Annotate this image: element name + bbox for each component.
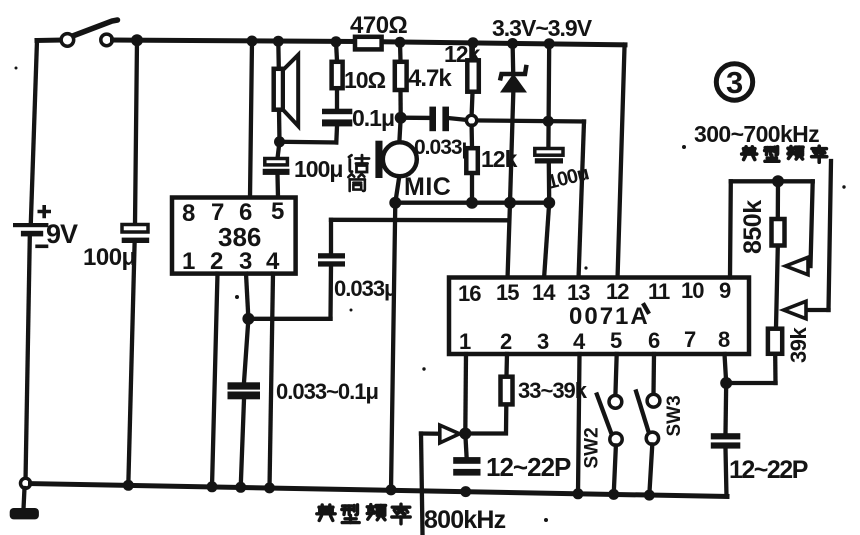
wire 850k top lead [776, 181, 781, 218]
svg-text:MIC: MIC [404, 173, 451, 201]
capacitor C 0.033u coupling top lead [329, 220, 333, 255]
svg-text:12k: 12k [444, 41, 481, 67]
speaker LS1 cone [283, 55, 298, 126]
capacitor C 100u battery hollow plate [122, 225, 148, 233]
capacitor C 0.1u plate top [322, 109, 352, 115]
svg-text:800kHz: 800kHz [424, 506, 506, 534]
node junction dot mic bottom [389, 197, 401, 209]
svg-text:39k: 39k [786, 327, 811, 363]
wire 12k lower bottom lead [470, 174, 474, 203]
svg-text:15: 15 [496, 280, 519, 305]
svg-text:4: 4 [573, 329, 586, 354]
node junction dot rail pin1 column [460, 486, 471, 497]
node junction dot pin1 node [459, 428, 471, 440]
wire top rail right segment [382, 42, 625, 45]
resistor R 12k upper body [467, 60, 479, 91]
wire battery bottom lead [26, 236, 30, 481]
svg-text:12: 12 [606, 279, 629, 304]
wire pin8 node to 39k corner [726, 381, 775, 385]
resistor R 33-39k body [501, 377, 513, 405]
svg-text:8: 8 [182, 200, 195, 227]
wire 12k upper bottom lead [469, 93, 474, 116]
wire mic bottom lead [395, 176, 399, 202]
wire pin15 column [508, 203, 511, 279]
capacitor C 100u battery solid plate [122, 238, 150, 243]
node junction dot rail pin3 column [235, 482, 246, 493]
capacitor C 12-22P right plate top [711, 433, 741, 439]
svg-text:14: 14 [532, 280, 556, 305]
node junction dot 850k top [772, 175, 784, 187]
annotation leader2 vertical [829, 161, 832, 310]
microphone MIC body circle [383, 142, 417, 176]
node junction dot row 12k [466, 197, 478, 209]
svg-text:9: 9 [719, 278, 731, 303]
wire pin8 column upper [725, 354, 727, 383]
node junction dot bottom rail 100u column [123, 480, 134, 491]
svg-text:5: 5 [610, 328, 622, 353]
wire 12-22P right bottom lead [726, 449, 727, 497]
label battery plus sign [38, 205, 52, 218]
svg-text:850k: 850k [739, 200, 767, 254]
node ground junction ring [21, 478, 31, 488]
svg-text:4.7k: 4.7k [408, 65, 452, 92]
wire 850k top row [731, 179, 813, 183]
wire mic row y203 [395, 201, 551, 205]
wire top rail middle segment [113, 40, 355, 42]
node junction dot rail pin4 column [573, 488, 584, 499]
switch SW3 bottom contact [646, 432, 658, 444]
svg-text:10Ω: 10Ω [344, 67, 386, 93]
svg-text:13: 13 [567, 280, 590, 305]
label huatong chinese char tong [348, 174, 365, 191]
page number circled 3 [716, 64, 752, 100]
wire 10ohm top lead [336, 42, 337, 61]
svg-text:16: 16 [458, 281, 481, 306]
wire zener top lead [510, 44, 515, 73]
wire 0.033u coupling bottom lead [328, 267, 333, 319]
label dianxing pinlv right [742, 146, 827, 162]
resistor R 12k lower body [466, 148, 478, 173]
node junction dot rail zener column [507, 38, 518, 49]
battery B1 long plate [13, 223, 48, 227]
wire 12k upper top lead [470, 43, 475, 60]
wire 386 pin4 to ground rail [270, 274, 274, 488]
wire pin14 column [544, 203, 549, 279]
wire SW3 bottom lead [649, 444, 652, 495]
annotation arrow 800kHz triangle [440, 425, 460, 443]
capacitor C 100u output top lead [278, 142, 280, 159]
wire pin9 column up [728, 181, 733, 277]
op-amp U1 386 body [172, 198, 296, 274]
IC U2 0071A body [449, 278, 749, 355]
switch SW3 lever [636, 392, 648, 432]
diode zener VD cathode bar with wings [500, 65, 527, 81]
wire pin1 column [463, 354, 468, 434]
wire zener bottom lead [510, 93, 513, 203]
wire 0.033-0.1u bottom lead [241, 399, 244, 487]
capacitor C 0.033u series left lead [401, 116, 431, 121]
wire annotation arrow1 drop [811, 181, 813, 266]
label 0071A tick [644, 305, 648, 312]
svg-text:3: 3 [726, 65, 743, 100]
wire battery top lead [31, 41, 37, 224]
capacitor C 100u output solid plate [263, 169, 290, 175]
node junction dot rail 12k column [468, 37, 479, 48]
wire pin5 column [615, 354, 616, 395]
wire pin4 column [578, 354, 580, 494]
node junction ring 12k-12k [466, 115, 476, 125]
svg-text:10: 10 [681, 278, 704, 303]
svg-text:11: 11 [648, 279, 670, 304]
wire 12-22P left mid leads [465, 434, 466, 458]
svg-text:5: 5 [271, 198, 284, 225]
wire 0.1u bottom lead [334, 126, 339, 142]
capacitor C 100u battery column top lead [135, 40, 137, 224]
wire speaker bottom lead [277, 110, 282, 142]
wire 4.7k bottom lead [398, 91, 403, 118]
wire pin12 column from rail corner [618, 45, 626, 279]
wire 10ohm to 0.1u [335, 89, 339, 109]
svg-text:SW2: SW2 [582, 427, 603, 468]
svg-text:8: 8 [718, 327, 730, 352]
node junction dot rail mic column [386, 484, 397, 495]
wire 100u output bottom lead to 386 pin5 [275, 175, 280, 198]
capacitor C 12-22P right plate bottom [711, 442, 741, 448]
svg-text:3.3V~3.9V: 3.3V~3.9V [492, 15, 593, 41]
svg-text:2: 2 [210, 248, 223, 275]
capacitor C 0.033u coupling plate bottom [318, 261, 345, 266]
wire mic top lead [399, 118, 400, 143]
capacitor C 0.033u series right lead [449, 118, 467, 120]
resistor R 850k body [772, 219, 785, 246]
switch S1 contact circle left [61, 34, 74, 47]
node junction dot rail 386 pin6 column [247, 36, 258, 47]
wire SW2 bottom lead [614, 445, 616, 494]
node junction dot rail 4.7k column [395, 37, 406, 48]
node junction dot speaker bottom [274, 136, 285, 147]
speaker LS1 body [274, 69, 283, 110]
svg-text:0.033~0.1μ: 0.033~0.1μ [276, 379, 378, 404]
wire pin13 column [579, 122, 585, 280]
svg-text:3: 3 [239, 248, 252, 275]
node junction dot 4.7k mic [395, 112, 407, 124]
wire 386 pin6 to rail [250, 41, 252, 198]
svg-text:0.1μ: 0.1μ [352, 105, 394, 131]
capacitor C 0.033u series plate right [442, 107, 449, 132]
switch S1 contact circle right [101, 34, 113, 46]
wire pin3 node to coupling cap [248, 317, 330, 321]
label huatong chinese char hua [349, 155, 369, 172]
wire y120 line right of node [472, 120, 584, 121]
annotation arrow 800kHz leader horizontal [421, 431, 441, 436]
wire pin3 node to 0.033-0.1u cap [244, 319, 248, 383]
svg-text:470Ω: 470Ω [350, 12, 408, 39]
node junction dot rail pin2 [207, 481, 218, 492]
svg-text:2: 2 [500, 329, 512, 354]
svg-text:3: 3 [537, 329, 549, 354]
capacitor C 100u3 hollow plate [535, 149, 563, 156]
svg-text:7: 7 [684, 327, 696, 352]
annotation arrow2 triangle [784, 301, 806, 318]
label dianxing pinlv bottom [317, 504, 410, 524]
node junction dot 386 pin3 [242, 313, 254, 325]
node junction dot rail SW3 [644, 490, 655, 501]
svg-text:100μ: 100μ [294, 156, 342, 182]
svg-text:1: 1 [459, 329, 471, 354]
node junction dot pin8 node [720, 377, 732, 389]
svg-text:6: 6 [648, 328, 660, 353]
wire pin8 to cap lead [723, 383, 728, 433]
capacitor C 100u3 solid plate [535, 158, 563, 163]
node junction dot rail battery-cap column [131, 34, 143, 46]
resistor R 10ohm body [332, 62, 343, 88]
wire 100u3 top lead [546, 44, 551, 149]
wire 39k bottom lead to pin8 node [773, 355, 778, 383]
node junction dot rail pin4 column [264, 482, 275, 493]
svg-text:0071A: 0071A [569, 303, 650, 330]
annotation leader2 horizontal [807, 308, 829, 312]
switch SW2 bottom contact [610, 433, 622, 445]
wire 386 pin3 down [246, 274, 248, 319]
capacitor C 100u battery bottom lead [128, 243, 134, 485]
label battery minus sign [35, 245, 48, 249]
wire ground stem [24, 488, 25, 509]
svg-text:4: 4 [266, 248, 280, 275]
node junction dot y120 100u3 tap [543, 116, 554, 127]
wire 33-39k bottom lead L to pin1 node [465, 405, 506, 433]
capacitor C 12-22P left plate top [453, 457, 480, 464]
svg-text:12~22P: 12~22P [486, 452, 571, 482]
resistor R 39k body [768, 329, 782, 354]
node junction dot row 100u3 [543, 197, 555, 209]
capacitor C 0.1u plate bottom [322, 119, 352, 126]
microphone MIC back plate bar [375, 141, 382, 178]
battery B1 short thick plate [21, 231, 43, 237]
wire top rail left segment [37, 38, 61, 44]
capacitor C 0.033u coupling plate top [318, 253, 345, 258]
svg-text:1: 1 [182, 248, 195, 275]
wire pin6 column [651, 354, 656, 394]
annotation arrow 800kHz leader vertical [421, 434, 423, 534]
resistor R 470ohm body [355, 37, 382, 50]
node junction dot rail speaker column [273, 36, 284, 47]
wire zobel horizontal [280, 140, 337, 145]
capacitor C 0.033-0.1u plate top [228, 382, 261, 389]
svg-text:0.033μ: 0.033μ [334, 276, 397, 301]
node junction dot rail 100u3 column [544, 38, 555, 49]
svg-text:300~700kHz: 300~700kHz [694, 121, 819, 147]
node junction dot rail SW2 [608, 489, 619, 500]
wire 4.7k top lead [398, 42, 403, 61]
switch SW2 lever [597, 395, 612, 434]
wire speaker top lead [276, 41, 281, 69]
capacitor C 0.033-0.1u plate bottom [228, 392, 261, 400]
wire 12k lower top lead [469, 126, 474, 148]
svg-text:12~22P: 12~22P [729, 456, 808, 484]
node junction dot row zener [504, 197, 516, 209]
annotation arrow1 triangle [786, 257, 809, 274]
svg-text:100μ: 100μ [83, 244, 136, 271]
wire mic column to ground rail [391, 203, 395, 490]
wire y220 line to pin15 [331, 218, 508, 223]
diode zener VD triangle [500, 74, 527, 93]
capacitor C 100u output hollow plate [265, 159, 288, 165]
switch SW2 top contact [609, 395, 622, 408]
svg-text:9V: 9V [46, 219, 78, 249]
wire 386 pin2 to ground rail [212, 274, 218, 487]
capacitor C 12-22P left plate bottom [453, 469, 480, 476]
wire bottom ground rail [31, 484, 728, 497]
resistor R 4.7k body [395, 62, 407, 90]
svg-text:SW3: SW3 [664, 395, 685, 436]
capacitor C 0.033u series plate left [429, 107, 436, 132]
wire 100u3 bottom lead [547, 164, 552, 203]
switch S1 lever [70, 20, 118, 37]
wire pin2 column [504, 354, 509, 376]
wire 850k to 39k [776, 247, 778, 328]
switch SW3 top contact [647, 394, 660, 407]
node junction dot rail 10ohm column [331, 36, 342, 47]
ground bar [10, 508, 39, 519]
